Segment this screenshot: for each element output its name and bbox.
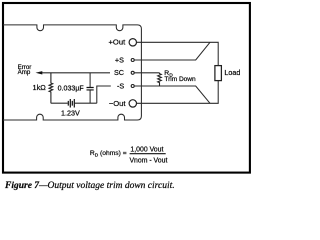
svg-text:Amp: Amp [18, 69, 31, 76]
resistor 1k [49, 73, 53, 103]
wire SC to RD [134, 72, 159, 74]
svg-text:Load: Load [224, 68, 240, 77]
figure border frame [3, 3, 250, 173]
svg-text:−Out: −Out [109, 99, 127, 108]
wire +Out to load [137, 42, 219, 65]
svg-text:+Out: +Out [109, 38, 127, 47]
formula fraction bar [130, 153, 166, 155]
svg-text:1,000 Vout: 1,000 Vout [130, 146, 163, 153]
svg-text:+S: +S [115, 55, 124, 64]
resistor RD trim down [158, 73, 162, 86]
svg-text:SC: SC [114, 68, 124, 77]
wire -S sense [134, 86, 210, 103]
pin -Out [129, 100, 136, 107]
arrowhead error amp [36, 71, 43, 74]
wire -S inside [97, 86, 111, 103]
pin SC [131, 71, 134, 74]
wire +S sense [134, 42, 210, 60]
svg-text:Trim Down: Trim Down [164, 76, 196, 83]
svg-text:Figure 7—Output voltage trim d: Figure 7—Output voltage trim down circui… [4, 181, 175, 191]
converter module outline U1 [3, 25, 141, 120]
wire SC to error amp with arrow [42, 72, 110, 74]
capacitor 0.033uF [89, 73, 91, 87]
wire -Out to load [137, 81, 219, 104]
svg-text:0.033µF: 0.033µF [58, 85, 85, 93]
pin -S [131, 85, 134, 88]
svg-text:Vnom - Vout: Vnom - Vout [129, 158, 167, 165]
wire bottom rail left [51, 102, 68, 104]
pin +Out [129, 39, 136, 46]
svg-text:1kΩ: 1kΩ [32, 83, 46, 92]
pin +S [131, 59, 134, 62]
svg-text:-S: -S [117, 81, 124, 90]
load box [215, 66, 222, 81]
battery 1.23V [68, 99, 74, 108]
svg-text:1.23V: 1.23V [61, 108, 80, 117]
wire bottom rail right [74, 102, 97, 104]
